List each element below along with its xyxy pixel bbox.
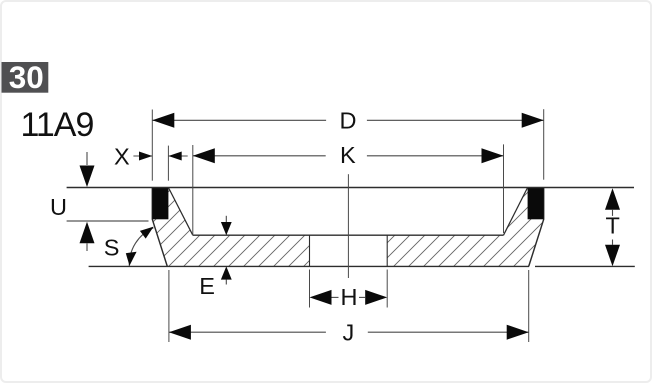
svg-text:X: X — [114, 144, 130, 170]
dimension X — [114, 144, 188, 181]
svg-text:J: J — [343, 319, 355, 345]
hatched wheel cross-section left half — [152, 188, 309, 267]
svg-text:S: S — [104, 234, 120, 260]
svg-text:E: E — [199, 273, 215, 299]
dimension U — [50, 152, 95, 251]
svg-text:T: T — [606, 212, 620, 238]
U lower extension line — [67, 220, 149, 222]
badge 30 — [2, 59, 49, 95]
dimension E — [199, 216, 231, 299]
bottom surface line — [89, 265, 529, 267]
svg-text:D: D — [340, 107, 357, 133]
top surface line — [67, 187, 634, 189]
svg-text:U: U — [50, 194, 67, 220]
svg-text:K: K — [340, 142, 356, 168]
dimension D — [152, 107, 543, 180]
center line — [347, 174, 349, 278]
dimension K — [193, 142, 504, 235]
dimension T — [605, 188, 620, 266]
abrasive segment right (black) — [528, 187, 544, 219]
dimension H — [310, 270, 388, 310]
hatched wheel cross-section right half — [387, 188, 544, 267]
svg-text:30: 30 — [9, 59, 44, 95]
abrasive segment left (black) — [152, 187, 168, 219]
svg-text:H: H — [341, 284, 358, 310]
dimension S (angle) — [104, 227, 154, 266]
body top line — [193, 234, 504, 236]
dimension J — [169, 270, 529, 345]
svg-text:11A9: 11A9 — [21, 106, 94, 144]
